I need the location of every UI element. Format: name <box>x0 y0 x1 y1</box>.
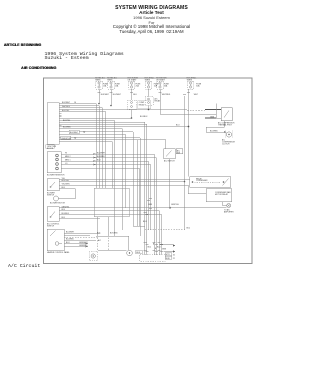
svg-text:BLOWER RESISTOR: BLOWER RESISTOR <box>47 175 65 177</box>
svg-text:BLU: BLU <box>187 228 191 230</box>
svg-text:BLK/WHT: BLK/WHT <box>70 132 79 134</box>
svg-text:BLU/RED: BLU/RED <box>210 131 218 133</box>
svg-text:BLU/YEL: BLU/YEL <box>62 180 69 182</box>
svg-text:TIMES: TIMES <box>145 80 151 82</box>
svg-text:WHT/RED: WHT/RED <box>162 94 171 96</box>
svg-text:TIMES: TIMES <box>95 80 101 82</box>
svg-text:BLK/WHT: BLK/WHT <box>101 94 110 96</box>
svg-text:GRN: GRN <box>162 249 167 251</box>
svg-text:HEATER CONTROL PANEL: HEATER CONTROL PANEL <box>47 251 70 254</box>
svg-text:MOTOR RELAY: MOTOR RELAY <box>215 193 229 196</box>
svg-text:YEL/GRN: YEL/GRN <box>62 183 71 185</box>
svg-text:BLOWER MOTOR: BLOWER MOTOR <box>50 203 66 205</box>
svg-text:BLOCK: BLOCK <box>47 148 54 150</box>
svg-text:GRN/YEL: GRN/YEL <box>62 206 70 208</box>
svg-text:BLU: BLU <box>148 247 152 249</box>
svg-text:BLK: BLK <box>97 233 101 235</box>
svg-text:22: 22 <box>173 258 175 260</box>
svg-text:CLUTCH: CLUTCH <box>222 144 230 146</box>
svg-text:A/C: A/C <box>98 239 102 242</box>
svg-text:RESISTOR: RESISTOR <box>62 138 72 140</box>
svg-text:MED 1: MED 1 <box>65 159 71 161</box>
svg-text:THERMAL PROT: THERMAL PROT <box>218 124 233 127</box>
svg-text:BLU/WHT: BLU/WHT <box>113 94 122 96</box>
svg-text:GRN: GRN <box>210 117 215 119</box>
svg-text:BLU/WHT: BLU/WHT <box>66 231 75 233</box>
svg-text:OR START: OR START <box>128 79 138 82</box>
svg-text:A/C SWITCH: A/C SWITCH <box>164 160 175 163</box>
svg-text:WHT: WHT <box>194 94 199 96</box>
svg-text:AMPLIFIER: AMPLIFIER <box>224 211 234 214</box>
svg-text:BLU/RED: BLU/RED <box>97 156 105 158</box>
svg-text:16: 16 <box>74 102 76 104</box>
svg-text:RELAY: RELAY <box>155 100 162 103</box>
svg-text:BLU/WHT: BLU/WHT <box>97 152 106 154</box>
svg-text:BLK/WHT: BLK/WHT <box>62 102 71 104</box>
svg-text:OR START: OR START <box>156 79 166 82</box>
svg-text:GRN/WHT: GRN/WHT <box>79 242 88 244</box>
svg-text:GRN/RED: GRN/RED <box>79 245 88 247</box>
svg-text:BLU/BLK: BLU/BLK <box>140 116 148 118</box>
svg-text:BLU: BLU <box>157 247 161 249</box>
svg-text:SWITCH: SWITCH <box>47 195 55 197</box>
svg-text:GRN: GRN <box>148 204 153 206</box>
svg-text:SWITCH: SWITCH <box>47 226 55 228</box>
svg-text:16: 16 <box>173 254 175 256</box>
svg-text:TIMES: TIMES <box>187 80 193 82</box>
svg-text:A: A <box>153 243 155 246</box>
svg-text:BLW: BLW <box>166 258 170 260</box>
svg-text:BLK/RED: BLK/RED <box>110 233 118 235</box>
svg-text:BLK/YEL: BLK/YEL <box>63 120 70 122</box>
svg-text:WHT/BLU: WHT/BLU <box>62 106 71 108</box>
svg-text:BLU: BLU <box>133 94 137 96</box>
svg-text:RELAY: RELAY <box>139 103 146 106</box>
svg-text:BLU/RED: BLU/RED <box>63 127 71 129</box>
svg-text:SW: SW <box>177 152 180 154</box>
svg-text:TIMES: TIMES <box>107 80 113 82</box>
svg-text:RELAY: RELAY <box>196 178 203 181</box>
svg-text:BLK/YEL: BLK/YEL <box>62 110 69 112</box>
svg-text:MED 2: MED 2 <box>65 156 71 158</box>
svg-text:BLU/RED: BLU/RED <box>66 238 74 240</box>
svg-text:GRN/YEL: GRN/YEL <box>171 204 179 206</box>
svg-text:BLU/BLK: BLU/BLK <box>62 213 70 215</box>
svg-text:G101: G101 <box>136 252 140 254</box>
